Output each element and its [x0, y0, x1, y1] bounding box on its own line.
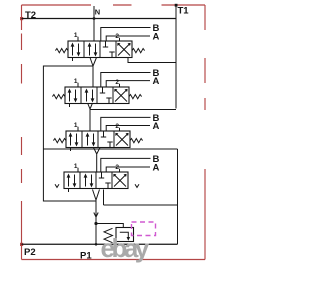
valve V2 left spring [52, 95, 65, 99]
valve V3 pilot port 1 [77, 127, 79, 131]
valve V3 pilot port 2 [119, 128, 121, 131]
valve V2 pilot port 2 [119, 84, 121, 87]
valve V4 pilot port 2 [119, 169, 121, 172]
valve V1 pilot port 2 [119, 38, 121, 41]
wire tank line T2-T1 (top) [22, 18, 177, 20]
wire carryover funnel V3 out [94, 148, 101, 173]
node T2 junction dot [20, 17, 23, 20]
node P2 junction dot [20, 243, 23, 246]
wire left bypass gallery [43, 66, 96, 201]
wire carryover funnel V1 out [90, 58, 97, 88]
valve V3 body [66, 131, 130, 151]
valve V2 body [65, 87, 129, 107]
valve V3 left spring [53, 139, 66, 143]
wire port B of V4 [101, 158, 151, 172]
svg-text:2: 2 [115, 33, 119, 40]
svg-text:1: 1 [74, 163, 78, 170]
valve V1 right spring [132, 49, 145, 53]
svg-text:T1: T1 [178, 6, 190, 17]
junction P1 [95, 243, 98, 246]
wire pump line P2-P1 (bottom) [22, 243, 178, 245]
wire section divider under V4 [104, 190, 178, 206]
junction pump/relief node [94, 222, 97, 225]
svg-text:P1: P1 [80, 251, 92, 262]
svg-text:T2: T2 [25, 10, 36, 21]
wire port B of V1 [101, 28, 151, 42]
relief valve RV1 body [116, 228, 134, 242]
svg-text:A: A [153, 121, 160, 132]
valve V1 body [68, 41, 132, 61]
wire N gallery into V1 [93, 19, 95, 42]
svg-text:A: A [153, 32, 160, 43]
svg-text:2: 2 [115, 164, 119, 171]
valve V2 pilot port 1 [77, 83, 79, 87]
optional port box (magenta dashed) [132, 222, 156, 236]
junction N [93, 17, 96, 20]
valve V1 left spring [55, 49, 68, 53]
relief valve RV1 spring [104, 228, 113, 242]
svg-text:2: 2 [115, 79, 119, 86]
wire carryover funnel V4 out [93, 190, 100, 201]
svg-text:1: 1 [74, 122, 78, 129]
wire port A of V2 [106, 81, 150, 87]
wire N stub [93, 6, 95, 19]
svg-text:1: 1 [74, 78, 78, 85]
wire port A of V3 [106, 126, 150, 132]
wire V1 return to tank box [128, 58, 176, 63]
wire carryover funnel V2 out [88, 104, 93, 132]
valve V4 right detent mark [135, 184, 139, 187]
wire port B of V3 [101, 117, 151, 131]
wire relief pilot branch [96, 224, 123, 228]
relief valve RV1 flow arrow [120, 232, 129, 239]
valve V4 left detent mark [55, 184, 59, 187]
svg-text:P2: P2 [24, 247, 36, 258]
svg-text:A: A [153, 76, 160, 87]
svg-text:2: 2 [115, 123, 119, 130]
wire section divider under V2 [90, 109, 176, 111]
wire port B of V2 [101, 73, 151, 88]
wire port A of V1 [106, 36, 150, 41]
svg-text:1: 1 [74, 32, 78, 39]
wire pump line down to P1 [95, 200, 97, 244]
valve V3 right spring [130, 139, 143, 143]
svg-text:ebay: ebay [101, 233, 150, 263]
valve V2 right spring [129, 95, 142, 99]
wire T1 drop line [175, 5, 177, 109]
svg-text:A: A [153, 163, 160, 174]
node T1 junction dot [175, 4, 178, 7]
valve V4 body [64, 172, 128, 192]
valve V4 pilot port 1 [77, 168, 79, 172]
valve V1 pilot port 1 [77, 37, 79, 41]
wire tank box B top [44, 149, 178, 244]
wire port A of V4 [106, 167, 150, 172]
enclosure border (red dashed) [22, 5, 206, 260]
svg-text:N: N [95, 7, 100, 16]
flow arrowhead on pump line [94, 213, 98, 218]
